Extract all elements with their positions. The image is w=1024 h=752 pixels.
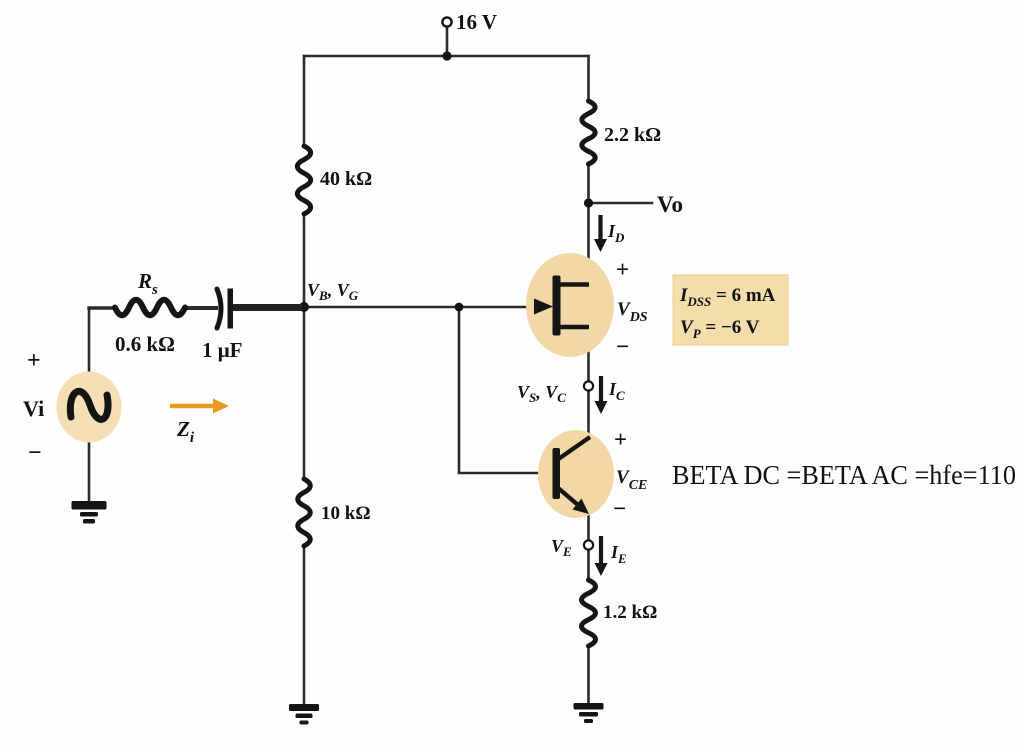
wire right branch: RD to node Vo bbox=[587, 164, 590, 203]
node VS,VC open terminal bbox=[517, 381, 593, 405]
wire left branch: node VB to R2 bbox=[303, 307, 306, 479]
wire 16V stub bbox=[446, 27, 449, 57]
resistor R2 10 kOhm bbox=[298, 479, 371, 546]
svg-text:+: + bbox=[614, 427, 627, 452]
svg-text:−: − bbox=[616, 334, 629, 359]
wire left branch: R1 to node VB bbox=[303, 214, 306, 307]
ground at Vi bbox=[72, 501, 107, 524]
wire source vertical to node VS bbox=[587, 326, 590, 390]
node VB,VG junction dot bbox=[299, 280, 359, 312]
svg-text:VP = −6 V: VP = −6 V bbox=[680, 317, 760, 341]
svg-text:+: + bbox=[616, 257, 629, 282]
wire Vo tap bbox=[589, 202, 653, 205]
svg-text:−: − bbox=[613, 496, 626, 521]
JFET Q1 body bbox=[526, 253, 614, 357]
junction dot at 16V tap bbox=[442, 51, 451, 60]
JFET gate arrow bbox=[534, 299, 553, 315]
wire BJT emitter to node VE bbox=[587, 512, 590, 580]
JFET Q1 symbol bbox=[553, 276, 590, 336]
ground right branch bbox=[574, 703, 604, 723]
svg-text:0.6 kΩ: 0.6 kΩ bbox=[115, 332, 175, 356]
current arrow ID bbox=[594, 215, 607, 252]
resistor Rs 0.6 kOhm bbox=[115, 269, 185, 356]
wire RE to ground bbox=[587, 646, 590, 703]
wire Vi bottom bbox=[88, 442, 91, 502]
ground left branch bbox=[289, 704, 319, 725]
wire base feed vertical bbox=[459, 307, 552, 473]
resistor R1 40 kOhm bbox=[297, 146, 372, 214]
wire node VS to BJT collector bbox=[587, 390, 590, 440]
svg-text:10 kΩ: 10 kΩ bbox=[321, 503, 371, 524]
svg-text:−: − bbox=[28, 440, 42, 466]
svg-text:+: + bbox=[27, 348, 41, 374]
svg-text:Vi: Vi bbox=[23, 396, 44, 421]
capacitor C1 1 uF bbox=[202, 289, 242, 363]
BJT Q2 symbol bbox=[553, 437, 591, 514]
BJT Q2 body bbox=[538, 430, 614, 518]
wire node VE to RE bbox=[587, 578, 590, 580]
svg-text:16 V: 16 V bbox=[456, 10, 497, 34]
wire top rail bbox=[304, 55, 589, 58]
current arrow IC bbox=[595, 376, 608, 414]
thick wire cap to node VB bbox=[233, 304, 302, 311]
label + VCE - bbox=[613, 427, 647, 521]
wire right branch: rail to RD bbox=[587, 56, 590, 101]
wire left branch: R2 to ground bbox=[303, 546, 306, 704]
source Vi sine bbox=[70, 391, 108, 419]
svg-text:1.2 kΩ: 1.2 kΩ bbox=[603, 602, 657, 623]
current arrow IE bbox=[595, 536, 608, 576]
svg-text:BETA DC =BETA AC =hfe=110: BETA DC =BETA AC =hfe=110 bbox=[672, 460, 1016, 490]
wire left branch: rail to R1 bbox=[303, 56, 306, 146]
svg-text:Vo: Vo bbox=[657, 192, 683, 217]
node VE open terminal bbox=[551, 536, 593, 559]
junction dot gate/base split bbox=[455, 303, 464, 312]
node Vo bbox=[584, 192, 683, 217]
svg-text:2.2 kΩ: 2.2 kΩ bbox=[604, 124, 661, 146]
svg-text:40 kΩ: 40 kΩ bbox=[320, 168, 372, 190]
wire Rs to cap bbox=[185, 306, 216, 310]
impedance arrow Zi bbox=[170, 399, 229, 447]
resistor RE 1.2 kOhm bbox=[582, 580, 658, 646]
wire gate feed bbox=[304, 306, 537, 309]
supply terminal 16 V bbox=[442, 10, 497, 34]
label + VDS - bbox=[616, 257, 648, 359]
resistor RD 2.2 kOhm bbox=[582, 101, 661, 164]
wire Vi top bbox=[89, 306, 116, 309]
spec box IDSS VP bbox=[673, 275, 788, 345]
source Vi body bbox=[57, 372, 122, 443]
wire drain vertical bbox=[587, 203, 590, 285]
svg-text:1 μF: 1 μF bbox=[202, 338, 242, 362]
